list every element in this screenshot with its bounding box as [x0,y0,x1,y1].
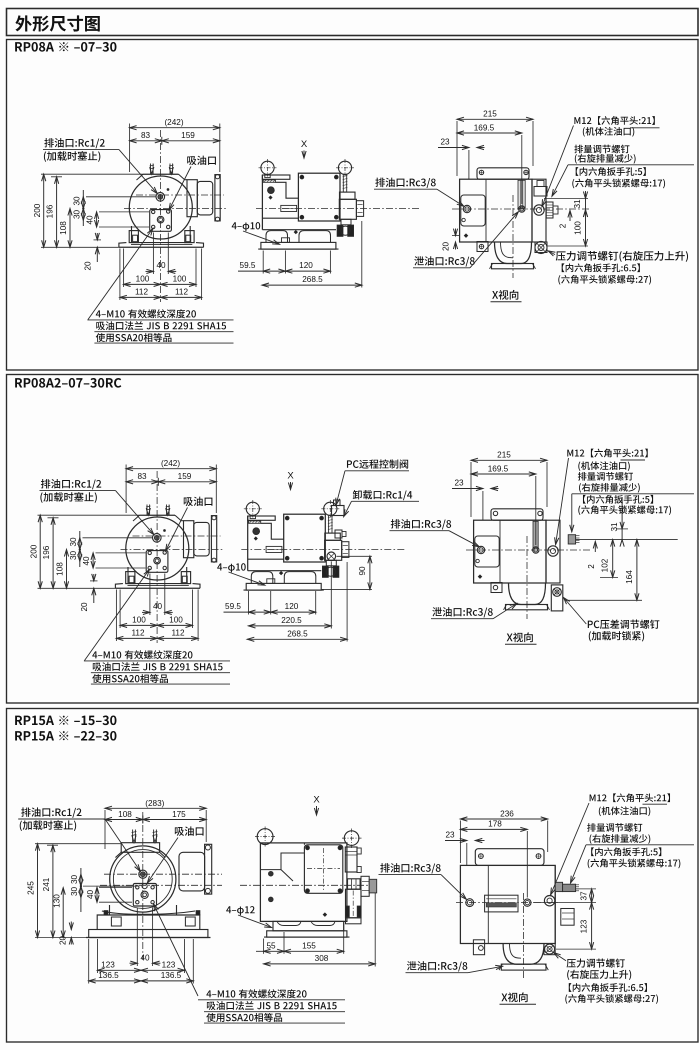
label turn right to reduce displacement [575,154,636,164]
dim 2 s2 [594,542,596,553]
svg-text:220.5: 220.5 [281,616,302,625]
X view inner pad [461,195,485,226]
dim 112 112 base width [119,249,121,301]
label right turn reduce s2 [579,483,640,493]
valve seals [322,566,328,577]
foot plate side view [261,242,336,249]
dim 130 RP15 [62,888,64,938]
RP15 X view port center [524,899,531,906]
drain elbow s2 [509,583,546,605]
section 2 title RP08A2-07-30RC [15,378,121,388]
svg-text:40: 40 [156,261,166,270]
RP15 displacement screw comb [563,884,576,891]
RP15 valve bottom flange [346,918,362,924]
svg-text:40: 40 [82,556,91,566]
label M12 hex flat head 21 s2 [567,449,647,458]
RP15 valve seals [346,906,350,917]
label body oil filler port [583,127,634,137]
label body oil filler RP15 [599,806,650,816]
X view centerline [452,208,590,210]
label 4-M10 tapped depth 20 RP15 [206,989,306,998]
centerline flange [133,535,221,537]
svg-text:100: 100 [132,615,146,624]
svg-text:108: 108 [56,562,65,576]
label M12 hex flat head 21 RP15 [590,793,670,802]
centerline vertical [156,471,158,643]
label use SSA20 equivalent [92,674,168,683]
label lock nut 17 s2 [578,505,671,515]
label X view direction [492,290,518,300]
dim 100 right side [585,210,587,246]
pump body side edges [131,226,133,243]
RP15 X view centerlines [456,902,560,904]
dim 90 PC valve [337,555,372,557]
valve column threaded rod [329,515,332,533]
svg-text:83: 83 [141,131,151,140]
svg-text:123: 123 [101,960,115,969]
pump body circle front view [126,517,189,580]
section 3 title RP15A -22-30 [15,731,116,741]
svg-text:40: 40 [86,890,95,900]
svg-text:123: 123 [162,960,176,969]
label pressure adjusting screw right turn raises pressure [556,251,688,262]
dim 220.5 section2 [330,562,332,629]
base bolt slots [129,576,134,583]
RP15 bottom bracket [473,940,484,955]
label hex socket 5 RP15 [591,847,661,856]
RP15 eyebolt left [257,829,273,845]
label suction flange JIS B 2291 SHA15 [96,321,226,330]
label body oil filler s2 [578,461,629,471]
svg-text:200: 200 [29,544,38,558]
label plugged when loading [40,492,96,503]
svg-text:100: 100 [169,615,183,624]
svg-text:130: 130 [52,894,61,908]
dim 40 flange bolts vertical [96,212,98,227]
label leak port Rc3/8 s2 [432,607,492,617]
RP15 pressure adjusting screw [544,944,555,955]
page title 外形尺寸图 [15,15,99,31]
page title box [7,9,699,36]
svg-text:175: 175 [172,810,186,819]
dim 20 foot height [93,574,95,581]
X view main body s2 [474,520,546,583]
side view central square [298,173,340,221]
svg-text:X: X [287,471,294,482]
label drain port Rc3/8 s2 [391,519,451,529]
svg-text:112: 112 [171,628,184,637]
dim 100 100 base bolts [123,249,125,288]
drain elbow [495,242,532,264]
base feet side view [248,570,322,572]
dim 40 RP15 bottom [136,908,138,967]
dim 30 30 port offsets [82,190,84,226]
svg-text:159: 159 [178,472,192,481]
valve side connector [356,201,363,217]
base bolt slots [133,235,138,242]
dim 31 right side [544,198,588,200]
side view body left block [261,175,263,230]
X view center port circle [519,206,525,212]
label drain port Rc1/2 [41,479,101,489]
label 4-phi12 holes [226,906,254,915]
RP15 suction flange square [133,884,156,907]
RP15 small port above flange [142,884,147,889]
svg-text:169.5: 169.5 [474,123,495,132]
svg-text:102: 102 [601,558,610,572]
diamond mark on foot [294,230,297,233]
svg-text:30: 30 [72,210,81,220]
side view centerline [241,548,405,550]
section 3 title RP15A -15-30 [15,715,116,725]
svg-text:59.5: 59.5 [240,261,256,270]
label use SSA20 RP15 [206,1013,282,1022]
svg-text:90: 90 [358,566,367,576]
section 2 middle view group [241,500,405,590]
X view inner pad s2 [475,536,499,567]
label use SSA20 equivalent [96,333,172,342]
dim 37 RP15 [576,888,596,890]
svg-text:108: 108 [118,810,132,819]
PC remote control valve block [332,506,345,516]
RP15 drain elbow [503,944,544,965]
section 3 box RP15A [7,709,699,1043]
PC differential adjusting screw column [551,585,563,611]
side view central square [284,514,326,562]
svg-text:196: 196 [42,545,51,559]
side view body left block [247,516,249,571]
RP15 centerlines [100,884,222,886]
svg-text:59.5: 59.5 [225,602,241,611]
PC valve pilot circle [327,552,336,561]
label hex socket 6.5 RP15 [569,983,647,992]
RP15 side centerline [240,884,378,886]
suction flange square [146,551,168,573]
label drain port Rc3/8 [375,178,435,188]
base foot plates [119,243,127,248]
section 1 box RP08A [7,40,699,371]
dim 108 [69,209,71,248]
svg-text:(242): (242) [164,118,183,127]
dim 245 RP15 [37,844,39,938]
leader to flange tapped holes [88,229,153,320]
svg-text:112: 112 [131,628,144,637]
svg-text:123: 123 [580,919,589,933]
valve body on side view [339,199,356,219]
label hex socket 5 [576,167,646,176]
diamond mark on foot [279,571,282,574]
svg-text:215: 215 [497,451,511,460]
lifting studs on top [146,505,148,516]
RP15 bolts on left block [269,871,274,876]
X view top bracket s2 [491,509,543,520]
RP15 base bracket side [273,921,344,930]
RP15 pressure column [554,865,556,943]
dim 59.5 and 120 [262,251,264,274]
label suction flange JIS B 2291 SHA15 [93,662,223,671]
X view centerline s2 [466,549,590,551]
suction flange bar [211,516,216,562]
svg-text:112: 112 [175,287,188,296]
svg-text:268.5: 268.5 [302,275,323,284]
RP15 M12 plug [555,882,562,891]
X view drain port circle s2 [477,546,484,553]
svg-text:55: 55 [266,941,276,950]
label 4-M10 tapped depth 20 [96,309,196,318]
label 4-M10 tapped depth 20 [92,650,192,659]
dim ref line from screw s2 [576,539,678,541]
label right turn reduce RP15 [590,834,651,844]
dim 108 [66,550,68,589]
dim 200 height [43,174,45,247]
svg-text:20: 20 [442,242,451,252]
dim 40 RP15 flange bolts [96,887,98,902]
RP15 connector bolt [369,879,377,893]
label leak port Rc3/8 RP15 [407,961,467,971]
drain port Rc1/2 [153,534,162,543]
valve side connector [342,542,349,558]
svg-text:155: 155 [302,941,316,950]
svg-text:100: 100 [136,274,150,283]
suction flange square [150,210,172,232]
drain diamond mark [254,537,257,540]
svg-text:40: 40 [153,602,163,611]
section 2 box RP08A2 [7,375,699,704]
valve column hex fitting [340,192,356,199]
svg-text:215: 215 [483,110,497,119]
RP15 pump body circle [110,846,176,912]
foot plate side view [246,583,321,590]
svg-text:136.5: 136.5 [98,971,119,980]
svg-text:(242): (242) [161,459,180,468]
leader to flange tapped holes [85,570,150,661]
label suction port [187,156,216,165]
section 2 left view group [29,459,230,684]
label locked when loading [589,631,644,641]
pump body circle front view [129,176,192,239]
dim 268.5 overall length [361,221,363,288]
bottom bracket foot [477,242,488,252]
dim 164 s2 [636,540,638,601]
label hex flat head lock nut 17 [572,179,665,189]
centerline horizontal [124,208,226,210]
RP15 valve side connector [361,876,369,896]
dim 40 bottom flange bolts [149,574,151,616]
dim 30 30 RP15 [80,868,82,912]
RP15 drain port [139,870,147,878]
eyebolt right [338,161,351,174]
drain port Rc1/2 [156,193,165,202]
label M12 hex flat head 21 [574,116,654,125]
X view center port circle s2 [533,547,539,553]
svg-text:(283): (283) [145,799,164,808]
svg-text:20: 20 [84,261,93,271]
RP15 base slots [111,917,121,926]
label pressure adjusting screw RP15 [567,959,625,968]
base foot plates [115,584,123,589]
RP15 X view top bracket [475,849,544,866]
svg-text:31: 31 [610,522,619,532]
dim 308 RP15 [374,893,376,967]
dim 59.5 and 120 section2 [248,591,250,615]
pressure column right s2 [546,520,560,583]
label X view direction s2 [507,632,533,642]
svg-text:37: 37 [580,891,589,901]
RP15 side body [260,843,347,922]
label suction flange JIS RP15 [207,1001,337,1010]
label hex socket 6.5 [562,263,640,272]
valve column hex fitting [325,533,341,540]
label 4-phi10 section2 [217,563,246,572]
svg-text:241: 241 [42,877,51,891]
dim 200 height [39,515,41,588]
svg-text:100: 100 [573,221,582,235]
dim 40 flange bolts vertical [92,553,94,568]
label PC differential pressure adjusting screw [588,620,660,629]
svg-text:2: 2 [558,223,567,228]
small screw s2 [476,559,479,562]
label X view direction RP15 [501,992,527,1002]
RP15 left block step [260,853,304,870]
drain diamond mark [269,196,272,199]
section 1 title RP08A -07-30 [15,42,116,52]
base feet side view [262,229,336,231]
valve body on side view [325,540,342,560]
pressure adjusting screw [535,242,547,253]
svg-text:30: 30 [69,537,78,547]
svg-text:30: 30 [69,551,78,561]
hex bolt on left block [253,528,260,535]
svg-text:20: 20 [59,936,68,946]
centerline flange [136,194,224,196]
label hex socket 5 s2 [583,495,653,504]
diamond mark X view [464,234,468,238]
dim 123 RP15 right [591,903,593,950]
svg-text:164: 164 [625,570,634,584]
svg-text:236: 236 [500,809,514,818]
svg-text:20: 20 [80,602,89,612]
svg-text:30: 30 [70,887,79,897]
eyebolt left [261,161,274,174]
svg-text:136.5: 136.5 [161,971,182,980]
RP15 M12 socket circle [544,896,554,906]
label leak port Rc3/8 [414,256,474,266]
dim 241 RP15 [52,845,54,937]
label right turn raise pressure RP15 [567,970,631,980]
small locating dot [164,530,166,532]
dim 20 left bottom [455,229,457,236]
label lock nut 17 RP15 [588,859,681,869]
RP15 lifting studs [132,830,134,843]
suction connection block right [184,521,194,558]
RP15 base cradle [102,911,195,914]
svg-text:100: 100 [173,274,187,283]
dim 136.5 136.5 RP15 [88,939,90,984]
pressure column right [532,179,546,242]
label unload port Rc1/4 [353,490,412,500]
dim 20 foot height [96,233,98,240]
diamond mark s2 [478,575,482,579]
svg-text:308: 308 [315,954,329,963]
eyebolt left [246,502,259,515]
valve seals [337,225,343,236]
RP15 X view port left [466,899,474,907]
dim 40 bottom flange bolts [152,233,154,275]
dim 55 and 155 RP15 [263,939,265,954]
dim 102 s2 [612,540,614,578]
M12 socket circle s2 [548,546,558,556]
RP15 X view main body [460,865,555,943]
dim 196 [56,177,58,248]
X view top bracket [477,168,529,179]
RP15 valve body side [346,889,362,918]
X view main body [460,179,532,242]
small screw lower left [462,218,465,221]
dim 31 s2 [621,497,623,529]
svg-text:X: X [301,139,308,150]
bottom bracket foot s2 [491,583,502,593]
RP15 eyebolt right [344,831,359,846]
svg-text:X: X [313,795,320,806]
displacement screw comb s2 [568,535,575,544]
svg-text:108: 108 [59,221,68,235]
label drain port Rc1/2 RP15 [21,807,81,817]
centerline horizontal [121,549,223,551]
hex bolt on left block [268,187,275,194]
svg-text:112: 112 [135,287,148,296]
RP15 valve top column [345,847,357,872]
label displacement adjusting screw s2 [578,472,633,481]
label drain port Rc3/8 RP15 [380,863,440,873]
volume adjusting screw [534,205,544,215]
svg-text:200: 200 [33,203,42,217]
label PC remote control valve [347,459,408,468]
valve column threaded rod [343,174,346,192]
RP15 suction flange bar [205,844,212,894]
leader to RP15 tapped holes [154,904,199,996]
section 2 X view group [452,451,590,619]
RP15 valve hex nut [348,879,361,889]
suction flange bar [215,175,220,221]
centerline vertical [160,130,162,302]
svg-text:40: 40 [86,215,95,225]
label suction port RP15 [175,826,204,835]
svg-text:83: 83 [137,472,147,481]
RP15 nameplate [485,895,518,912]
eyebolt right [324,502,337,515]
dim 112 112 base width [115,590,117,642]
dim 123 123 RP15 [97,939,99,973]
svg-text:31: 31 [573,199,582,209]
svg-text:30: 30 [70,875,79,885]
svg-text:120: 120 [299,261,313,270]
svg-text:159: 159 [181,131,195,140]
label suction port [184,497,213,506]
RP15 clamp marks [104,911,108,916]
RP15 base plate [89,930,208,938]
small locating dot [167,189,169,191]
svg-text:30: 30 [72,196,81,206]
X view drain port circle [463,205,470,212]
base bracket [129,231,138,243]
svg-text:169.5: 169.5 [488,464,509,473]
svg-text:23: 23 [440,138,450,147]
svg-text:178: 178 [488,820,502,829]
label 4-phi10 mounting holes [232,222,261,231]
label lock nut 27 RP15 [565,994,658,1004]
label hex flat head lock nut 27 [558,275,651,285]
svg-text:2: 2 [587,564,596,569]
